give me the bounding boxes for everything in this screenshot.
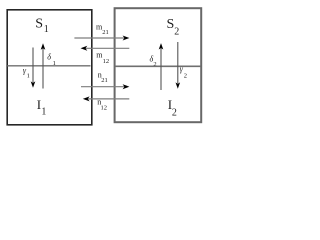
svg-text:2: 2	[184, 72, 187, 79]
svg-text:2: 2	[153, 61, 156, 68]
svg-text:1: 1	[41, 106, 46, 117]
svg-text:δ: δ	[47, 52, 51, 61]
arrow delta2 (up, right box)	[160, 48, 162, 90]
arrow m12 (right to left)	[86, 47, 130, 49]
svg-text:I: I	[37, 97, 41, 112]
arrow m21 (left to right)	[74, 37, 124, 39]
svg-text:S: S	[167, 17, 175, 32]
box S1/I1 compartment (left)	[7, 10, 92, 125]
arrow gamma1 (down, left box)	[32, 48, 34, 83]
svg-text:2: 2	[172, 108, 177, 119]
arrow delta1 (up, left box)	[42, 48, 44, 89]
svg-text:S: S	[35, 16, 43, 31]
arrow gamma2 (down, right box)	[177, 42, 179, 84]
svg-text:2: 2	[174, 26, 179, 37]
svg-text:21: 21	[102, 29, 109, 36]
arrow n12 (right to left)	[88, 98, 130, 100]
svg-text:21: 21	[101, 77, 108, 84]
box S2/I2 compartment (right)	[115, 8, 202, 122]
svg-text:1: 1	[44, 24, 49, 35]
arrow n21 (left to right)	[81, 86, 125, 88]
svg-text:1: 1	[27, 73, 30, 80]
divider line left box	[7, 65, 90, 67]
svg-text:12: 12	[103, 58, 110, 65]
divider line right box	[115, 65, 201, 67]
svg-text:1: 1	[53, 60, 56, 67]
svg-text:12: 12	[101, 104, 108, 111]
